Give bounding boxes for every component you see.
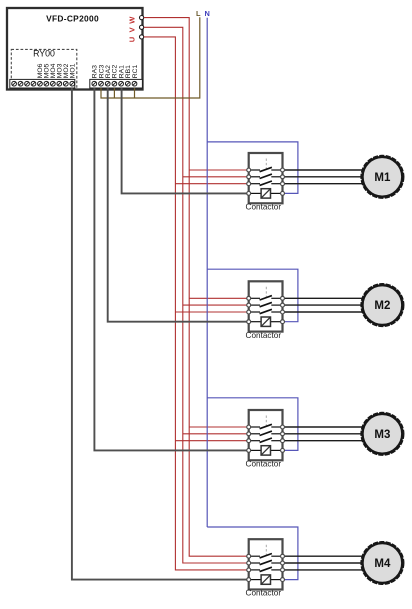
svg-text:Contactor: Contactor [246,203,282,212]
svg-text:M4: M4 [374,558,391,570]
wire contactor 3 to motor M3 phase 1 [285,426,363,428]
wire contactor 2 to motor M2 phase 2 [285,304,363,306]
wire contactor 3 to motor M3 phase 2 [285,433,363,435]
motor M2 [361,284,404,327]
wire tap phase W to contactor 2 [189,297,247,299]
wire RC1 drop [134,88,136,98]
wire tap phase U to contactor 2 [175,311,247,313]
svg-text:M3: M3 [374,429,390,441]
contactor K3 [247,410,285,460]
wire N feed to contactor 4 coil [207,527,298,580]
contactor K4 [247,539,285,589]
wire contactor 3 to motor M3 phase 3 [285,440,363,442]
wire phase W from VFD terminal to contactors [144,18,247,557]
svg-text:RC1: RC1 [132,64,139,78]
wire MO1 to contactor 4 coil [72,88,247,580]
wire contactor 1 to motor M1 phase 3 [285,183,363,185]
terminal strip relay outputs RA/RB/RC [90,79,143,88]
wire tap phase V to contactor 1 [183,176,247,178]
wire N feed to contactor 1 coil [207,142,298,194]
svg-text:W: W [127,16,136,24]
motor M1 [361,155,404,198]
wire phase V from VFD terminal to contactors [144,27,247,563]
relay card RY00 [11,49,77,88]
terminal labels RA3 RC3 RA2 RC2 RA1 RB1 RC1 [92,64,139,78]
svg-text:Contactor: Contactor [246,589,282,598]
contactor K2 [247,281,285,331]
label U V W [127,16,136,42]
svg-text:MO1: MO1 [70,63,77,78]
wire phase U from VFD terminal to contactors [144,37,247,570]
motor M3 [361,412,404,455]
wire RA2 to contactor 2 coil [108,88,248,322]
wire contactor 4 to motor M4 phase 1 [285,555,363,557]
svg-text:RY00: RY00 [33,49,55,59]
terminal strip MO (RY00 outputs) [10,79,75,88]
terminals U V W [140,16,144,40]
svg-text:N: N [205,9,210,18]
wire contactor 1 to motor M1 phase 1 [285,169,363,171]
wire contactor 4 to motor M4 phase 2 [285,562,363,564]
contactor K1 [247,153,285,203]
wire tap phase V to contactor 3 [183,433,247,435]
wire RA3 to contactor 3 coil [94,88,247,450]
wire tap phase U to contactor 1 [175,183,247,185]
svg-text:VFD-CP2000: VFD-CP2000 [46,14,99,24]
wire contactor 4 to motor M4 phase 3 [285,569,363,571]
wire N feed to contactor 2 coil [207,269,298,322]
wire tap phase W to contactor 1 [189,169,247,171]
wire contactor 2 to motor M2 phase 1 [285,297,363,299]
svg-text:L: L [196,9,201,18]
wire tap phase U to contactor 3 [175,440,247,442]
svg-text:M1: M1 [374,172,391,184]
motor M4 [361,542,404,585]
wire L line to RC commons [101,17,200,98]
wire RC2 drop [113,88,115,98]
wire RA1 to contactor 1 coil [122,88,248,193]
svg-text:Contactor: Contactor [246,331,282,340]
svg-text:U: U [127,36,136,42]
wire tap phase W to contactor 3 [189,426,247,428]
svg-text:M2: M2 [374,300,390,312]
svg-text:Contactor: Contactor [246,460,282,469]
VFD drive VFD-CP2000 [7,8,143,90]
wire contactor 1 to motor M1 phase 2 [285,176,363,178]
wire tap phase V to contactor 2 [183,304,247,306]
wire contactor 2 to motor M2 phase 3 [285,311,363,313]
wire N feed to contactor 3 coil [207,398,298,451]
wire N neutral vertical [206,18,208,527]
terminal labels MO6..MO1 [37,63,76,78]
